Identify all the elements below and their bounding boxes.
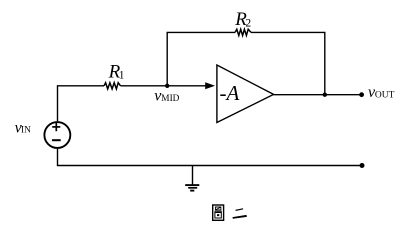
- svg-text:MID: MID: [161, 94, 179, 104]
- svg-text:2: 2: [245, 17, 251, 29]
- svg-text:IN: IN: [21, 126, 31, 136]
- svg-text:1: 1: [119, 69, 125, 81]
- svg-text:OUT: OUT: [375, 90, 395, 100]
- svg-text:-A: -A: [220, 81, 240, 105]
